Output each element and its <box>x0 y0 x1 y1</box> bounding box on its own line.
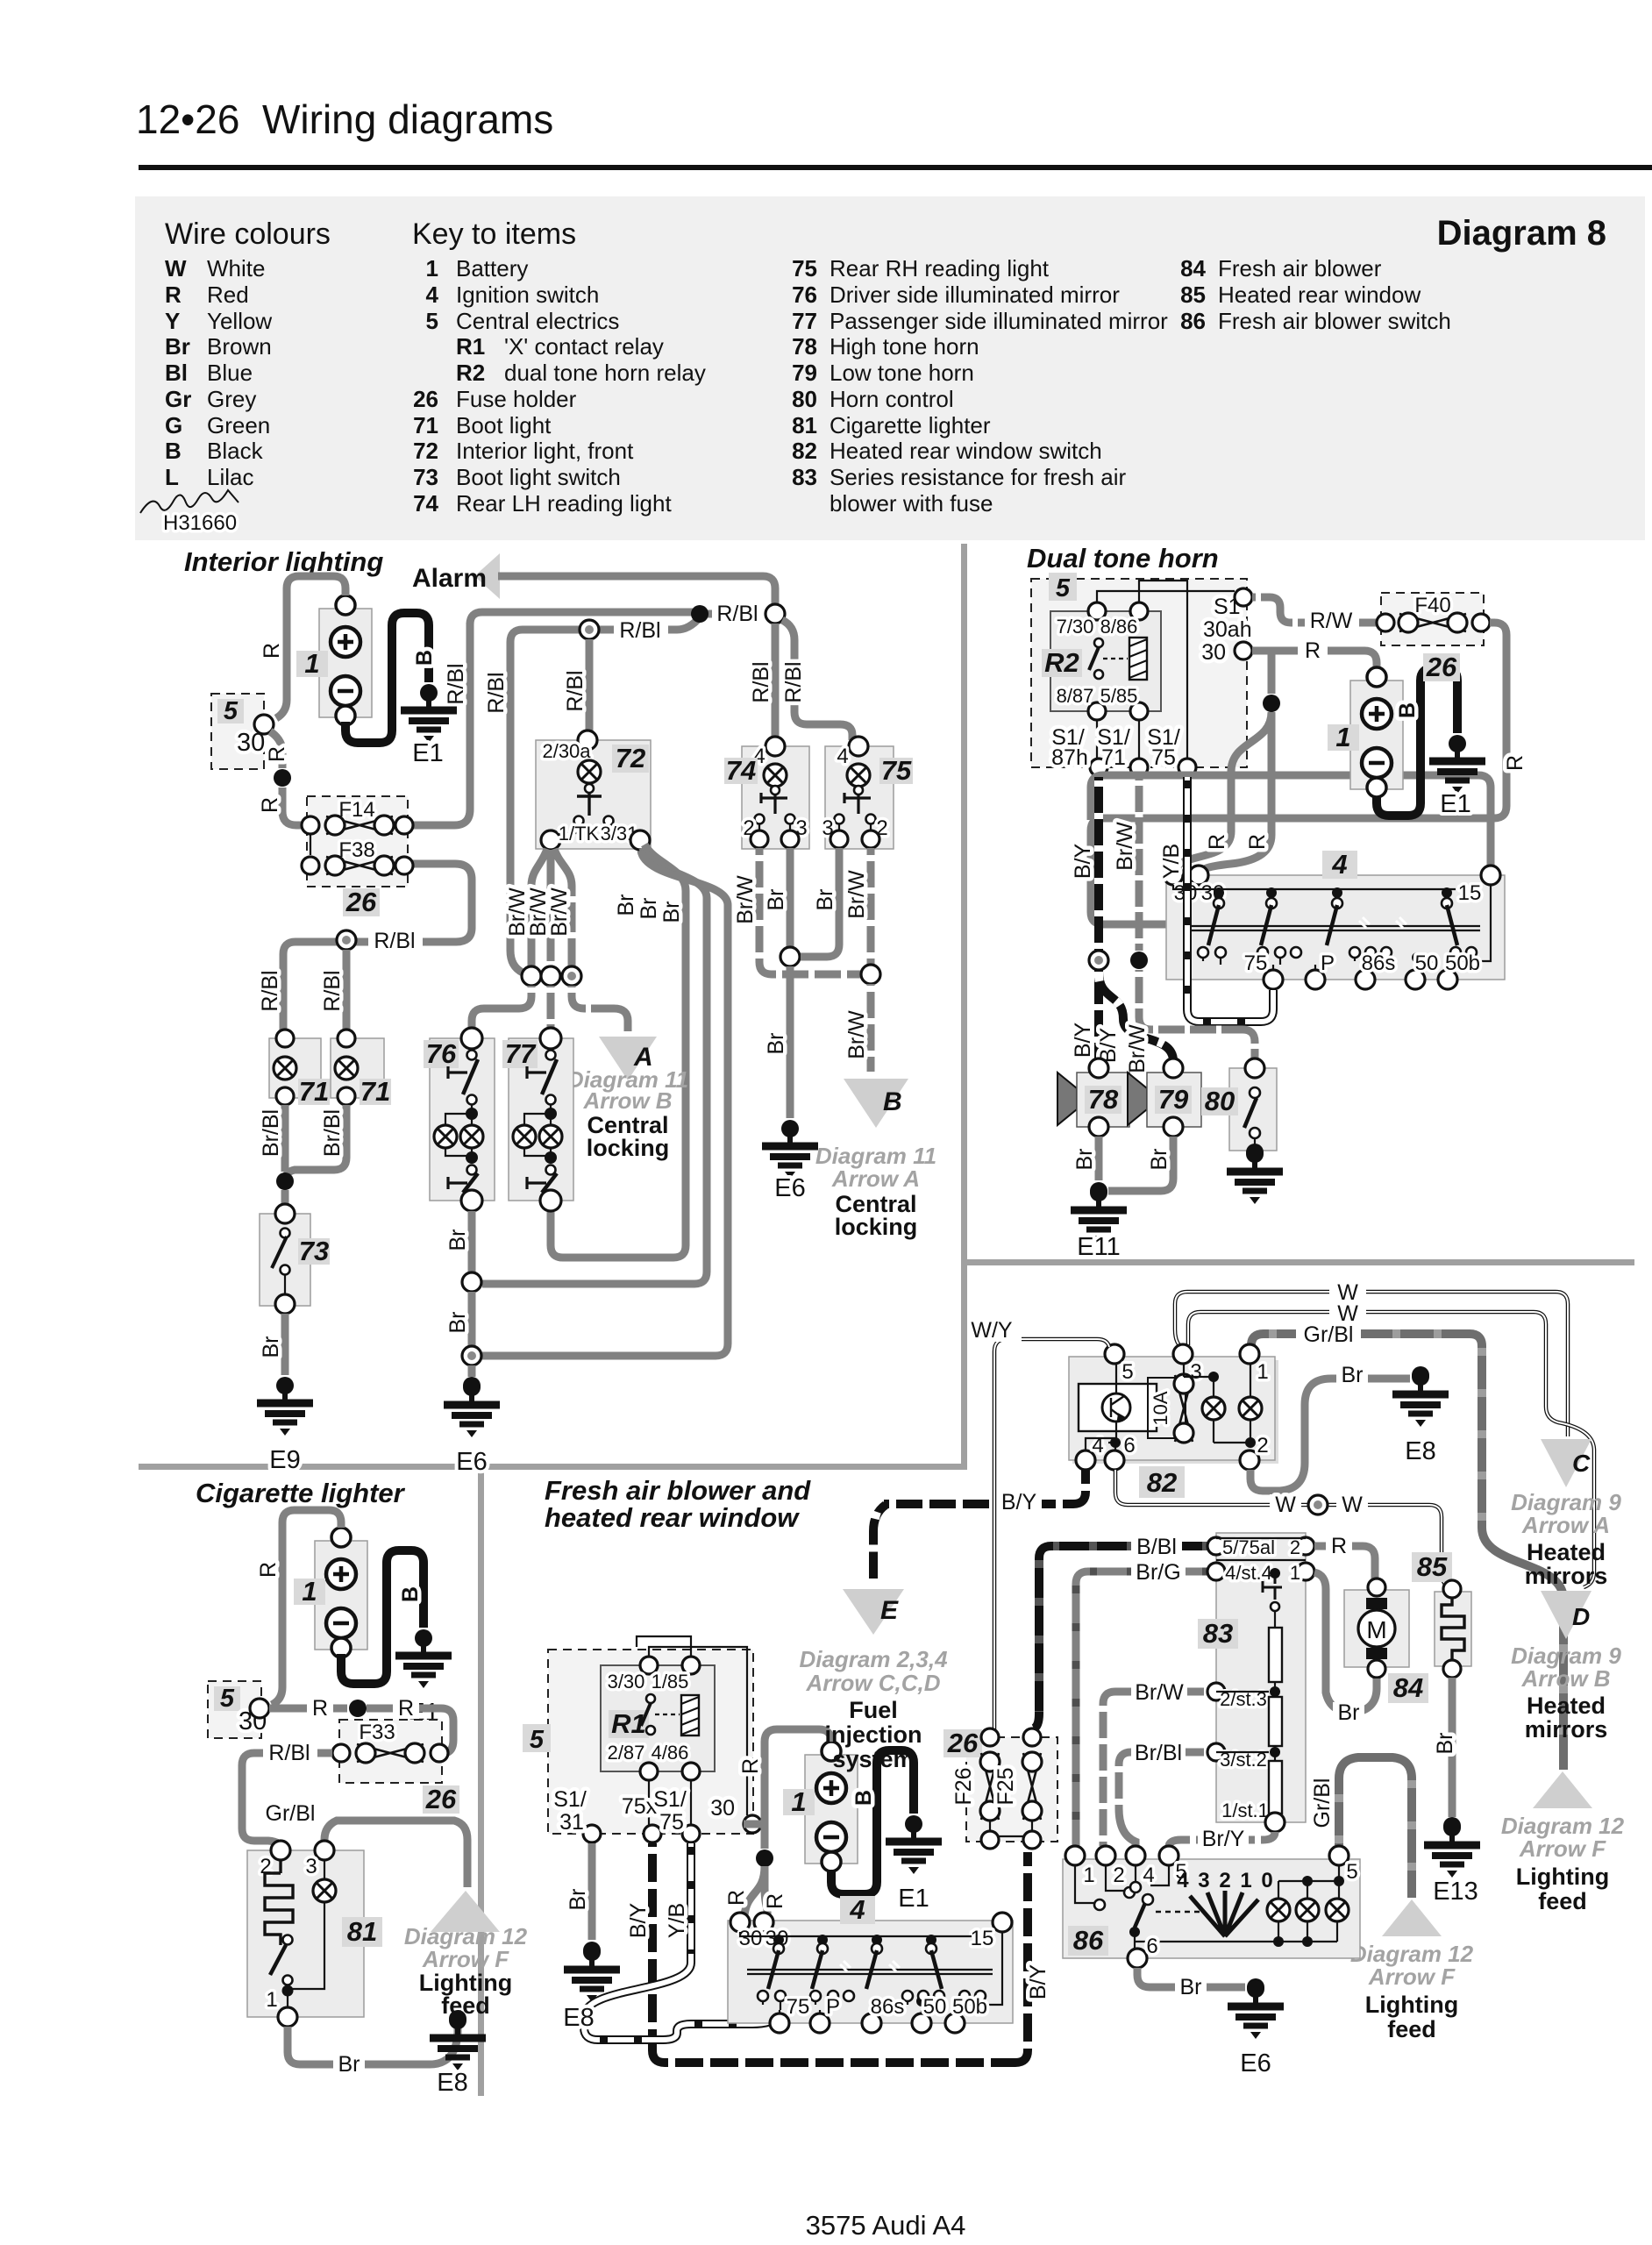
svg-text:5: 5 <box>426 308 438 334</box>
svg-text:R2: R2 <box>456 360 485 386</box>
wire Y/B from S1/75 to term 75 of switch <box>1187 777 1273 1022</box>
svg-text:system: system <box>832 1746 914 1772</box>
wire Gr/Bl 86 t5R link <box>1339 1757 1412 1898</box>
svg-text:blower with fuse: blower with fuse <box>830 490 993 517</box>
wire R battery loop to 30 <box>765 1729 831 1849</box>
node 30 terminal <box>254 715 274 734</box>
lighting feed arrow F cig <box>431 1891 500 1932</box>
svg-text:B: B <box>165 438 182 464</box>
svg-text:50b: 50b <box>1445 951 1480 975</box>
wire Gr/Bl to lighting feed right <box>1251 1334 1563 1770</box>
svg-text:F26: F26 <box>951 1767 976 1805</box>
svg-text:B/Y: B/Y <box>1026 1964 1050 2000</box>
svg-text:75: 75 <box>1244 951 1268 975</box>
wire R/Bl to 74 <box>772 624 780 737</box>
svg-text:80: 80 <box>792 386 817 412</box>
svg-text:R: R <box>1205 834 1229 850</box>
svg-text:R: R <box>256 1562 281 1578</box>
svg-text:26: 26 <box>425 1784 457 1814</box>
wire Br/Bl joins <box>281 1105 289 1172</box>
svg-text:1: 1 <box>1290 1562 1300 1584</box>
svg-text:72: 72 <box>413 438 438 464</box>
svg-text:4/st.4: 4/st.4 <box>1225 1562 1272 1584</box>
svg-text:1: 1 <box>304 648 319 679</box>
wire F38 to boot lights <box>283 864 472 1037</box>
svg-text:Arrow B: Arrow B <box>582 1087 672 1114</box>
svg-text:1/85: 1/85 <box>652 1671 689 1693</box>
wire Br 85 to E13 <box>1449 1678 1456 1817</box>
svg-text:W/Y: W/Y <box>971 1318 1013 1343</box>
svg-text:F38: F38 <box>338 838 374 862</box>
arrow C heated mirrors <box>1541 1439 1591 1487</box>
svg-text:Series resistance for fresh ai: Series resistance for fresh air <box>830 464 1126 490</box>
svg-text:5: 5 <box>530 1726 545 1754</box>
svg-text:Diagram 8: Diagram 8 <box>1437 214 1606 253</box>
svg-text:4: 4 <box>1143 1864 1154 1887</box>
arrow B central locking <box>844 1079 908 1128</box>
svg-text:1: 1 <box>1335 722 1350 752</box>
svg-text:R2: R2 <box>1044 647 1079 678</box>
svg-text:H31660: H31660 <box>163 511 237 535</box>
svg-text:Br: Br <box>764 889 788 911</box>
wires Br fan from 72 right terminal <box>551 845 686 1258</box>
wire vertical R/Bl no2 <box>510 642 523 973</box>
svg-text:Y: Y <box>165 308 180 334</box>
svg-text:R1: R1 <box>456 333 485 360</box>
wire y718 lower R/Bl <box>510 617 700 642</box>
wire ring down to 72 <box>586 639 594 735</box>
battery 1 horn <box>1350 667 1403 797</box>
svg-text:5: 5 <box>224 697 239 725</box>
svg-text:30: 30 <box>739 1927 763 1950</box>
mirror light 77 <box>509 1038 573 1201</box>
reading light 74 <box>742 746 809 849</box>
svg-text:81: 81 <box>347 1916 377 1947</box>
svg-text:81: 81 <box>792 412 817 438</box>
wire to 73 <box>281 1190 289 1212</box>
svg-text:2/30a: 2/30a <box>542 740 591 762</box>
svg-text:G: G <box>165 412 182 438</box>
wire 76 down chain to E6 <box>468 1211 476 1272</box>
svg-text:Br: Br <box>1342 1363 1364 1387</box>
svg-text:73: 73 <box>413 464 438 490</box>
svg-text:R/Bl: R/Bl <box>444 663 468 704</box>
svg-text:E9: E9 <box>269 1446 300 1474</box>
svg-text:E1: E1 <box>1440 790 1470 818</box>
wires Br/W fan from 72 left terminal <box>531 849 547 966</box>
svg-text:7/30: 7/30 <box>1057 616 1094 638</box>
wire R/W to fuse F40 <box>1252 597 1377 623</box>
svg-text:Br/W: Br/W <box>844 1010 869 1059</box>
boot light 71b <box>331 1038 384 1098</box>
relay R2 <box>1050 611 1161 711</box>
svg-text:R/Bl: R/Bl <box>781 661 806 702</box>
ignition switch 4 horn <box>1166 875 1505 980</box>
svg-text:1/TK: 1/TK <box>559 823 600 845</box>
svg-text:S1/: S1/ <box>653 1787 687 1812</box>
wire B/Bl 83 to F25 <box>1034 1546 1216 1728</box>
arrow E fuel injection <box>873 1505 886 1579</box>
svg-text:1: 1 <box>426 255 438 282</box>
wire 74-3 Br down <box>787 848 794 947</box>
svg-text:E8: E8 <box>563 2004 594 2032</box>
wire vertical R/Bl no1 <box>404 623 470 825</box>
svg-text:Grey: Grey <box>207 386 256 412</box>
svg-text:Fresh air blower switch: Fresh air blower switch <box>1218 308 1451 334</box>
svg-text:B/Y: B/Y <box>1071 844 1095 880</box>
svg-text:R: R <box>165 282 182 308</box>
wire Br 84 return to 83 <box>1314 1572 1377 1713</box>
svg-text:P: P <box>826 1995 840 2019</box>
svg-text:E1: E1 <box>412 739 443 767</box>
wire W3 with connector to 85 <box>1115 1470 1449 1586</box>
svg-text:73: 73 <box>299 1236 329 1266</box>
svg-text:71: 71 <box>299 1076 329 1107</box>
arrow F mid lighting feed <box>1382 1899 1442 1936</box>
wire Br to E9 <box>281 1314 289 1375</box>
svg-text:dual tone horn relay: dual tone horn relay <box>504 360 706 386</box>
svg-text:P: P <box>1321 951 1335 975</box>
wire R down to fuses <box>270 731 282 768</box>
svg-text:Rear RH reading light: Rear RH reading light <box>830 255 1050 282</box>
svg-text:Y/B: Y/B <box>665 1903 689 1938</box>
svg-text:B/Bl: B/Bl <box>1136 1535 1177 1559</box>
ground E6 under 74 <box>762 1120 818 1179</box>
svg-text:5: 5 <box>1122 1360 1133 1384</box>
node T1 <box>765 604 785 624</box>
svg-text:5/85: 5/85 <box>1100 685 1138 707</box>
wire ring down to 71b <box>343 950 351 1037</box>
wire W1 top <box>1175 1292 1568 1436</box>
svg-text:85: 85 <box>1417 1551 1448 1582</box>
svg-text:Gr: Gr <box>165 386 191 412</box>
fusebox 26 interior <box>307 796 408 887</box>
boot light 71a <box>269 1038 321 1098</box>
svg-text:Br: Br <box>338 2052 360 2077</box>
svg-text:Br/Y: Br/Y <box>1202 1827 1245 1851</box>
svg-text:Cigarette lighter: Cigarette lighter <box>830 412 991 438</box>
box 5 interior <box>211 694 264 769</box>
wire B/Y branch to horn 79 <box>1099 972 1173 1061</box>
series resistance 83 <box>1216 1533 1306 1822</box>
svg-text:Br/Bl: Br/Bl <box>1135 1741 1182 1765</box>
svg-text:C: C <box>1572 1450 1591 1477</box>
svg-text:6: 6 <box>1146 1935 1157 1958</box>
wire 75-3 Br to join <box>801 848 839 957</box>
svg-text:26: 26 <box>413 386 438 412</box>
cigarette lighter 81 <box>247 1850 364 2017</box>
svg-text:B/Y: B/Y <box>626 1903 651 1939</box>
svg-text:B: B <box>851 1790 876 1806</box>
svg-text:R/Bl: R/Bl <box>484 672 509 713</box>
svg-text:50: 50 <box>1415 951 1439 975</box>
svg-text:Brown: Brown <box>207 333 272 360</box>
svg-text:Br: Br <box>614 894 638 916</box>
svg-text:Br: Br <box>1433 1733 1457 1755</box>
svg-text:locking: locking <box>835 1214 918 1240</box>
heated rear window 85 <box>1435 1592 1471 1666</box>
svg-text:B: B <box>412 650 437 666</box>
svg-text:heated rear window: heated rear window <box>545 1502 800 1533</box>
svg-text:Cigarette lighter: Cigarette lighter <box>196 1478 406 1508</box>
mirror light 76 <box>430 1038 495 1201</box>
wire Br S1/31 to E8 <box>588 1843 596 1940</box>
svg-text:Br/W: Br/W <box>1125 1024 1150 1073</box>
svg-text:Br: Br <box>259 1336 283 1358</box>
svg-text:D: D <box>1572 1603 1590 1630</box>
box 5 cig <box>208 1681 261 1738</box>
svg-text:R: R <box>738 1758 763 1774</box>
svg-text:R/Bl: R/Bl <box>749 661 773 702</box>
wire R battery to box5 <box>276 576 345 718</box>
wire ring3 to arrow A <box>572 986 628 1031</box>
blower switch 86 <box>1063 1859 1360 1958</box>
svg-text:Key to items: Key to items <box>412 217 576 251</box>
wire Br/W from S1/71 to horn control 80 <box>1136 777 1143 951</box>
svg-text:Y/B: Y/B <box>1159 844 1184 879</box>
fuse box 26 F33 <box>339 1720 442 1783</box>
wire Br/W 83 to 86 t2 <box>1103 1692 1216 1846</box>
svg-text:3575 Audi A4: 3575 Audi A4 <box>806 2210 966 2241</box>
svg-text:R/Bl: R/Bl <box>716 602 758 626</box>
heated rear window switch 82 <box>1072 1360 1278 1464</box>
wire R/Bl from F33 to lighter <box>242 1753 332 1849</box>
svg-text:74: 74 <box>413 490 438 517</box>
svg-text:77: 77 <box>505 1038 537 1069</box>
svg-text:50: 50 <box>923 1995 947 2019</box>
svg-text:85: 85 <box>1180 282 1206 308</box>
svg-text:77: 77 <box>792 308 817 334</box>
svg-text:86: 86 <box>1073 1925 1104 1956</box>
reading light 75 <box>825 746 894 849</box>
svg-text:Central electrics: Central electrics <box>456 308 619 334</box>
wire from 15 terminal loop <box>1091 775 1491 868</box>
svg-text:75: 75 <box>792 255 817 282</box>
wire B to E1 <box>1377 668 1457 816</box>
wire R battery to 30 <box>272 1510 341 1705</box>
svg-text:5: 5 <box>1346 1860 1357 1884</box>
wire Br E8 right <box>1250 1379 1410 1491</box>
svg-text:Fresh air blower: Fresh air blower <box>1218 255 1382 282</box>
svg-text:8/86: 8/86 <box>1100 616 1138 638</box>
wire R to F33 <box>269 1705 347 1713</box>
svg-text:1/st.1: 1/st.1 <box>1221 1800 1269 1821</box>
svg-text:Boot light switch: Boot light switch <box>456 464 621 490</box>
svg-text:Br: Br <box>1072 1149 1097 1171</box>
svg-text:Horn control: Horn control <box>830 386 954 412</box>
arrow F right lighting feed <box>1533 1771 1592 1808</box>
svg-text:Br: Br <box>637 898 661 920</box>
svg-text:feed: feed <box>441 1992 490 2019</box>
ignition switch 4 blower <box>728 1921 1013 2023</box>
svg-text:1: 1 <box>302 1576 317 1607</box>
svg-text:Battery: Battery <box>456 255 528 282</box>
svg-text:Arrow F: Arrow F <box>422 1946 509 1972</box>
svg-text:Br/Bl: Br/Bl <box>320 1109 345 1157</box>
svg-text:Arrow A: Arrow A <box>831 1165 920 1192</box>
svg-text:Br: Br <box>445 1312 470 1334</box>
svg-text:E6: E6 <box>774 1174 805 1202</box>
svg-text:mirrors: mirrors <box>1525 1716 1608 1743</box>
svg-text:79: 79 <box>1158 1084 1189 1115</box>
svg-text:Br: Br <box>445 1229 470 1251</box>
svg-text:1: 1 <box>791 1786 806 1817</box>
svg-text:Br: Br <box>764 1033 788 1055</box>
svg-text:15: 15 <box>971 1927 994 1950</box>
svg-text:79: 79 <box>792 360 817 386</box>
svg-text:Lilac: Lilac <box>207 464 253 490</box>
svg-text:R: R <box>265 746 289 762</box>
svg-text:Br/W: Br/W <box>1135 1680 1184 1705</box>
svg-text:R/Bl: R/Bl <box>374 929 415 953</box>
svg-text:Heated: Heated <box>1527 1693 1606 1719</box>
wire Br/Y 83 to 86 t5 <box>1169 1832 1275 1847</box>
svg-text:4: 4 <box>1331 849 1347 880</box>
svg-text:R/Bl: R/Bl <box>268 1741 310 1765</box>
svg-text:3: 3 <box>305 1855 317 1878</box>
svg-text:31: 31 <box>559 1810 584 1835</box>
svg-text:Blue: Blue <box>207 360 253 386</box>
svg-text:Alarm: Alarm <box>412 564 487 593</box>
wires Br horns to E11 <box>1095 1137 1103 1180</box>
nodes three circles <box>522 966 541 986</box>
svg-text:Gr/Bl: Gr/Bl <box>1304 1322 1354 1347</box>
svg-text:78: 78 <box>792 333 817 360</box>
svg-text:E11: E11 <box>1077 1233 1120 1261</box>
svg-text:R: R <box>763 1893 787 1909</box>
svg-text:E1: E1 <box>898 1885 929 1913</box>
svg-text:Br/W: Br/W <box>547 887 572 937</box>
svg-text:Bl: Bl <box>165 360 188 386</box>
svg-text:Br: Br <box>165 333 190 360</box>
svg-text:Fuel: Fuel <box>849 1697 898 1723</box>
svg-text:feed: feed <box>1538 1888 1587 1914</box>
svg-text:Br: Br <box>659 902 684 923</box>
svg-text:Br: Br <box>1180 1975 1202 1999</box>
svg-text:R: R <box>1245 834 1270 850</box>
svg-text:R: R <box>258 797 282 813</box>
svg-text:E: E <box>880 1596 899 1625</box>
wire circle1 to 76 <box>472 986 531 1035</box>
svg-text:8/87: 8/87 <box>1057 685 1094 707</box>
wire circle2 to 77 <box>547 986 555 1035</box>
svg-text:R/W: R/W <box>1310 609 1353 633</box>
wire J1 left y697 <box>470 612 700 624</box>
svg-text:Diagram 2,3,4: Diagram 2,3,4 <box>799 1646 948 1672</box>
svg-text:locking: locking <box>587 1135 670 1161</box>
svg-text:Gr/Bl: Gr/Bl <box>1310 1778 1335 1828</box>
interior light front 72 <box>536 740 651 849</box>
horn 78 <box>1057 1073 1077 1125</box>
svg-text:Br: Br <box>1147 1149 1171 1171</box>
wire horizontal R/Bl y1072 to boot lights <box>337 930 356 950</box>
svg-text:F25: F25 <box>993 1767 1018 1805</box>
svg-text:Driver side illuminated mirror: Driver side illuminated mirror <box>830 282 1120 308</box>
svg-text:R: R <box>312 1696 328 1721</box>
svg-text:75x: 75x <box>622 1794 658 1819</box>
svg-text:5/75al: 5/75al <box>1222 1536 1275 1558</box>
svg-text:4: 4 <box>837 745 848 768</box>
wire alarm R/Bl bus <box>498 576 775 603</box>
svg-text:S1/: S1/ <box>553 1787 587 1812</box>
svg-text:26: 26 <box>345 887 377 917</box>
svg-text:75: 75 <box>1151 745 1176 770</box>
svg-text:84: 84 <box>1393 1672 1423 1703</box>
wire R to battery2 <box>1252 651 1377 670</box>
connector ring y718 <box>580 620 599 639</box>
wire B battery to E1 <box>345 613 429 743</box>
battery 1 cig <box>315 1528 367 1657</box>
svg-text:E8: E8 <box>437 2069 467 2097</box>
svg-text:30: 30 <box>1201 640 1226 665</box>
svg-text:W: W <box>1275 1493 1296 1517</box>
wire J1 to T1 <box>700 610 775 618</box>
node join circle <box>780 947 800 966</box>
wire W/Y to 82 t5 <box>994 1339 1109 1729</box>
svg-text:4: 4 <box>849 1894 865 1925</box>
battery 1 interior <box>319 595 372 725</box>
svg-text:Arrow F: Arrow F <box>1368 1963 1456 1990</box>
svg-text:Yellow: Yellow <box>207 308 272 334</box>
svg-text:2/87: 2/87 <box>608 1742 645 1764</box>
arrow D heated mirrors <box>1541 1591 1591 1639</box>
wire Br/Bl 83 to 86 t4 <box>1119 1752 1216 1846</box>
boot light switch 73 <box>260 1214 310 1306</box>
svg-text:R/Bl: R/Bl <box>258 970 282 1011</box>
svg-text:Arrow F: Arrow F <box>1519 1835 1606 1862</box>
wire Gr/Bl to lighting feed <box>324 1821 467 1887</box>
svg-text:Rear LH reading light: Rear LH reading light <box>456 490 672 517</box>
svg-text:Lighting: Lighting <box>1516 1864 1609 1890</box>
svg-text:75: 75 <box>659 1810 684 1835</box>
svg-text:75: 75 <box>881 755 912 786</box>
svg-text:R: R <box>1503 755 1527 771</box>
wire Y/B to ignition 75 <box>584 1843 777 2040</box>
svg-text:1: 1 <box>266 1988 277 2012</box>
svg-text:71: 71 <box>1101 745 1126 770</box>
section dividers <box>961 544 967 1470</box>
svg-text:Heated rear window: Heated rear window <box>1218 282 1421 308</box>
bottom terminals of box5 <box>1090 759 1107 776</box>
wire B/Y bus to 82 t4 <box>884 1470 1086 1504</box>
svg-text:71: 71 <box>360 1076 390 1107</box>
svg-text:Ignition switch: Ignition switch <box>456 282 599 308</box>
wire R branch to ignition switch <box>1268 651 1276 694</box>
svg-text:2: 2 <box>1257 1434 1268 1457</box>
svg-text:Passenger side illuminated mir: Passenger side illuminated mirror <box>830 308 1168 334</box>
svg-text:Black: Black <box>207 438 264 464</box>
svg-text:F40: F40 <box>1414 594 1450 617</box>
svg-text:82: 82 <box>1147 1467 1177 1498</box>
svg-text:75: 75 <box>787 1995 810 2019</box>
svg-text:1: 1 <box>1257 1360 1268 1384</box>
svg-text:76: 76 <box>792 282 817 308</box>
wire R branches to ignition 30s <box>744 1866 765 1915</box>
svg-text:R/Bl: R/Bl <box>320 970 345 1011</box>
svg-text:12•26 Wiring diagrams: 12•26 Wiring diagrams <box>136 96 553 142</box>
node J1 <box>691 605 709 623</box>
svg-text:Br: Br <box>813 889 837 911</box>
svg-text:30: 30 <box>710 1796 735 1821</box>
svg-text:B: B <box>398 1586 423 1602</box>
svg-text:L: L <box>165 464 179 490</box>
svg-text:M: M <box>1366 1616 1386 1643</box>
svg-text:4: 4 <box>426 282 439 308</box>
svg-text:R: R <box>260 643 284 659</box>
svg-text:Br/W: Br/W <box>733 875 758 924</box>
svg-text:15: 15 <box>1458 881 1482 905</box>
svg-text:78: 78 <box>1088 1084 1119 1115</box>
